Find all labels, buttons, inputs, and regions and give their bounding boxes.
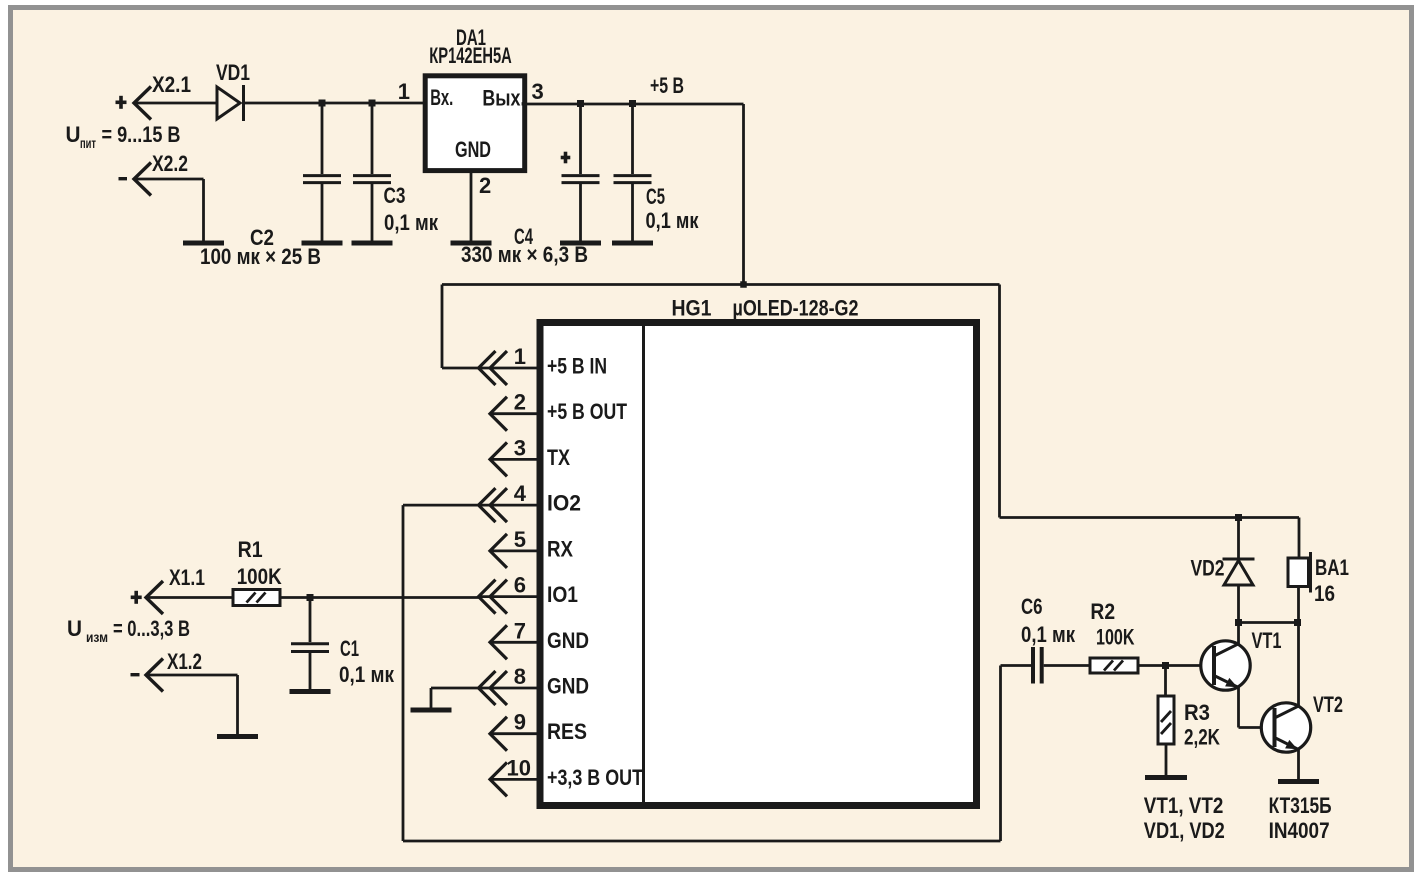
transistor VT1 (1201, 641, 1250, 690)
pin 3 HG1 TX (490, 458, 537, 461)
plus sign X1.1 (131, 595, 142, 599)
junction C1 (307, 594, 314, 601)
wire pin4 IO2 to bottom rail (403, 504, 479, 507)
svg-text:GND: GND (455, 137, 491, 162)
svg-text:R3: R3 (1184, 700, 1210, 725)
ground X2.2 (183, 241, 224, 246)
svg-text:IO2: IO2 (547, 491, 581, 516)
svg-text:IN4007: IN4007 (1269, 818, 1330, 843)
svg-text:8: 8 (514, 664, 526, 689)
svg-text:0,1 мк: 0,1 мк (339, 662, 395, 687)
pin 4 HG1 IO2 (479, 504, 537, 507)
svg-text:Вых.: Вых. (482, 86, 525, 111)
svg-text:HG1: HG1 (672, 296, 712, 321)
pin 8 HG1 GND (479, 687, 537, 690)
svg-text:100K: 100K (1096, 625, 1135, 650)
capacitor C5 (631, 104, 634, 174)
junction +5V rail (740, 281, 747, 288)
junction VD2 bottom (1235, 619, 1242, 626)
transistor VT2 (1261, 703, 1310, 752)
wire top rail to HG1 pin1 (442, 283, 1000, 286)
capacitor C6 (1030, 664, 1033, 667)
ground VT2 (1278, 779, 1319, 784)
wire C6 to R2 (1044, 664, 1090, 667)
svg-text:RX: RX (547, 536, 573, 561)
svg-text:U: U (67, 616, 82, 641)
wire X2.2 to ground (134, 178, 204, 181)
svg-text:0,1 мк: 0,1 мк (646, 208, 700, 233)
resistor R1 (233, 590, 280, 606)
svg-text:C5: C5 (646, 184, 665, 209)
connector X1.1 (146, 581, 163, 614)
pin 1 HG1 +5 В IN (479, 367, 537, 370)
diode VD1 (217, 87, 240, 119)
connector X2.1 (134, 87, 151, 120)
wire X2.1 to VD1 (134, 102, 218, 105)
minus sign X2.2 (119, 177, 128, 180)
svg-text:2: 2 (514, 390, 526, 415)
svg-text:КТ315Б: КТ315Б (1269, 793, 1332, 818)
svg-text:2: 2 (479, 173, 491, 198)
svg-text:изм: изм (86, 629, 108, 645)
bottom rail wire (403, 840, 1001, 843)
svg-text:5: 5 (514, 527, 526, 552)
svg-text:R1: R1 (238, 537, 263, 562)
svg-text:VD1: VD1 (216, 60, 250, 85)
svg-text:3: 3 (532, 79, 544, 104)
wire VT1 emitter to VT2 base (1237, 687, 1240, 728)
svg-text:1: 1 (514, 344, 526, 369)
svg-text:RES: RES (547, 719, 587, 744)
wire rail right down (998, 285, 1001, 518)
svg-text:VT1, VT2: VT1, VT2 (1144, 793, 1224, 818)
pin 9 HG1 RES (490, 732, 537, 735)
wire VT2 emitter (1297, 749, 1300, 779)
svg-text:2,2K: 2,2K (1184, 725, 1220, 750)
svg-text:9: 9 (514, 710, 526, 735)
svg-text:4: 4 (514, 481, 527, 506)
svg-text:+5 В: +5 В (650, 73, 684, 98)
junction BA1 bottom (1294, 619, 1301, 626)
ground pin8 (411, 708, 452, 713)
diode VD2 (1237, 518, 1240, 559)
svg-text:C1: C1 (340, 636, 359, 661)
wire VD2 to BA1 bottom (1239, 621, 1299, 624)
wire DA1 GND pin 2 (470, 172, 473, 241)
svg-text:GND: GND (547, 628, 589, 653)
resistor R2 (1090, 658, 1138, 673)
wire pin8 to ground (431, 687, 479, 690)
regulator DA1 KP142EH5A (425, 76, 525, 171)
wire VD1 to DA1 (245, 102, 424, 105)
svg-text:+5 В OUT: +5 В OUT (547, 399, 627, 424)
minus sign X1.2 (131, 673, 140, 676)
svg-text:10: 10 (507, 755, 531, 780)
capacitor C1 (309, 598, 312, 643)
svg-text:VD1, VD2: VD1, VD2 (1144, 818, 1225, 843)
ground X1.2 (217, 734, 258, 739)
svg-text:C3: C3 (384, 183, 406, 208)
svg-text:IO1: IO1 (547, 582, 578, 607)
junction R3 (1162, 662, 1169, 669)
svg-text:6: 6 (514, 573, 526, 598)
svg-text:100 мк × 25 В: 100 мк × 25 В (200, 244, 321, 269)
junction C2 (319, 100, 326, 107)
ground DA1 (451, 241, 492, 246)
svg-text:КР142ЕН5А: КР142ЕН5А (429, 43, 512, 68)
capacitor C3 (371, 103, 374, 174)
svg-text:X1.1: X1.1 (169, 565, 205, 590)
svg-text:100K: 100K (237, 564, 282, 589)
svg-text:1: 1 (398, 79, 410, 104)
capacitor C2 (321, 103, 324, 174)
svg-text:3: 3 (514, 435, 526, 460)
svg-text:Вх.: Вх. (430, 85, 453, 110)
pin 6 HG1 IO1 (479, 595, 537, 598)
svg-text:VT2: VT2 (1313, 692, 1343, 717)
connector X2.2 (134, 163, 151, 196)
pin 7 HG1 GND (490, 641, 537, 644)
ground R3 (1145, 775, 1187, 780)
wire +5V down (742, 104, 745, 285)
svg-text:330 мк × 6,3 В: 330 мк × 6,3 В (461, 242, 588, 267)
wire X1.1 to R1 (146, 596, 233, 599)
wire DA1 out +5V (527, 103, 744, 106)
wire R2 to VT1 base (1138, 664, 1212, 667)
svg-text:= 9...15 В: = 9...15 В (102, 122, 181, 147)
junction VD2 top (1235, 514, 1242, 521)
svg-text:0,1 мк: 0,1 мк (384, 210, 439, 235)
ground C1 (290, 689, 331, 694)
wire X1.2 to ground (146, 674, 238, 677)
svg-text:16: 16 (1314, 581, 1335, 606)
buzzer BA1 (1298, 518, 1301, 559)
resistor R3 (1164, 666, 1167, 697)
display module HG1 box (540, 323, 977, 806)
svg-text:U: U (66, 122, 81, 147)
junction C4 (577, 100, 584, 107)
wire VT1 collector (1237, 623, 1240, 645)
svg-text:C6: C6 (1021, 594, 1043, 619)
svg-text:7: 7 (514, 618, 526, 643)
top rail right (1000, 516, 1300, 519)
svg-text:= 0...3,3 В: = 0...3,3 В (113, 616, 190, 641)
pin 5 HG1 RX (490, 550, 537, 553)
wire VT2 collector (1297, 623, 1300, 707)
svg-text:GND: GND (547, 674, 589, 699)
connector X1.2 (146, 659, 163, 692)
svg-text:X2.2: X2.2 (152, 151, 188, 176)
svg-text:R2: R2 (1090, 599, 1115, 624)
svg-text:VT1: VT1 (1252, 628, 1282, 653)
junction C3 (369, 100, 376, 107)
svg-text:µOLED-128-G2: µOLED-128-G2 (733, 296, 859, 321)
svg-text:+5 В IN: +5 В IN (547, 354, 607, 379)
svg-text:пит: пит (80, 135, 96, 151)
plus terminal sign (116, 101, 127, 105)
pin 10 HG1 +3,3 В OUT (490, 778, 537, 781)
svg-text:X2.1: X2.1 (152, 72, 191, 97)
svg-text:X1.2: X1.2 (167, 649, 202, 674)
svg-text:TX: TX (547, 445, 570, 470)
svg-text:+3,3 В OUT: +3,3 В OUT (547, 765, 643, 790)
svg-text:0,1 мк: 0,1 мк (1021, 622, 1076, 647)
capacitor C4 (electrolytic) (579, 104, 582, 174)
junction C5 (629, 100, 636, 107)
svg-text:BA1: BA1 (1315, 555, 1349, 580)
svg-text:VD2: VD2 (1191, 556, 1225, 581)
pin 2 HG1 +5 В OUT (490, 412, 537, 415)
wire R1 to pin6 (280, 596, 479, 599)
